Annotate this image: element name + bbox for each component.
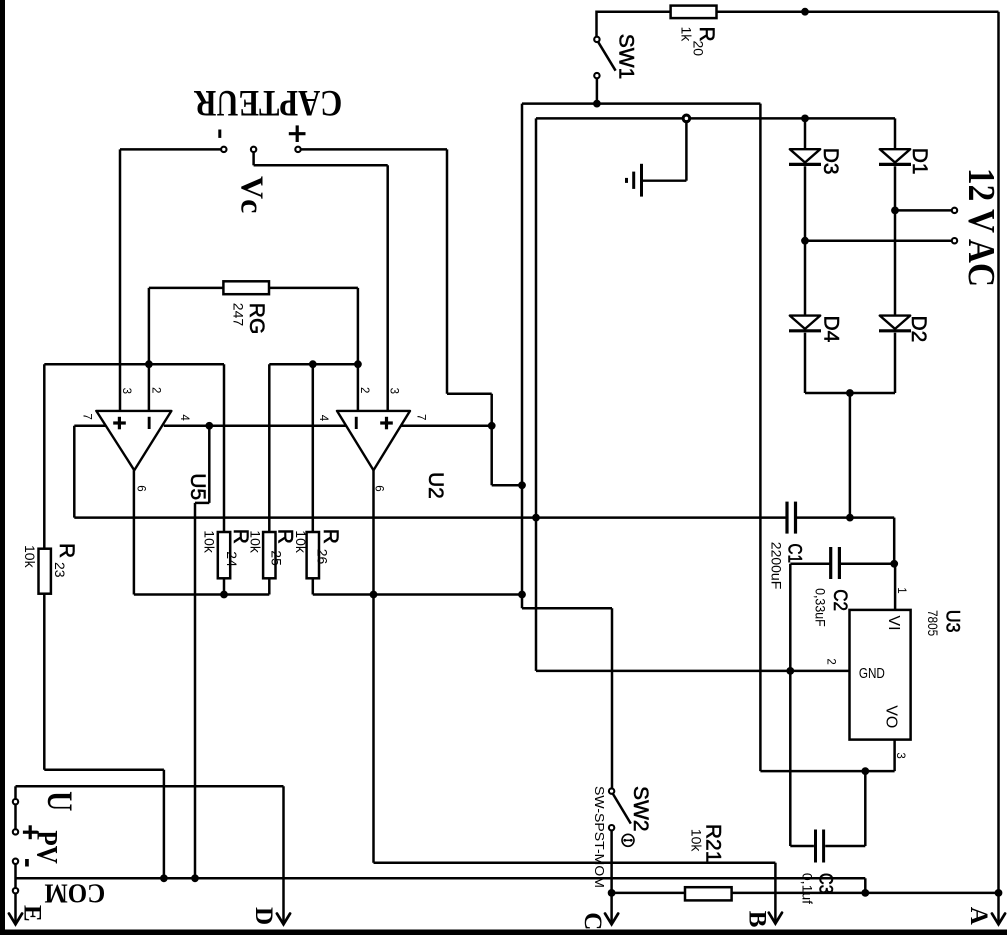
wire x522 vertical xyxy=(521,104,524,609)
wire rail y594.5 right xyxy=(313,593,522,596)
wire D1/D2 branch x895 xyxy=(894,118,897,149)
wire x536 vertical xyxy=(535,118,538,671)
output arrow C xyxy=(579,893,618,930)
wire COM corner to bottom rail xyxy=(864,878,867,893)
svg-text:R: R xyxy=(55,543,78,558)
resistor R26 xyxy=(293,364,342,594)
switch SW1 xyxy=(594,11,637,104)
svg-text:SW2: SW2 xyxy=(629,786,652,832)
wire x790.3 vertical xyxy=(789,564,792,846)
resistor RG xyxy=(223,281,269,334)
svg-text:D3: D3 xyxy=(819,148,842,175)
svg-text:CAPTEUR: CAPTEUR xyxy=(193,82,342,123)
wire capteur plus route xyxy=(446,149,449,393)
svg-text:COM: COM xyxy=(44,878,105,908)
svg-text:B: B xyxy=(744,911,771,928)
PV minus sign xyxy=(25,859,29,867)
PV plus sign xyxy=(23,831,38,834)
svg-text:E: E xyxy=(19,905,46,922)
wire U5 pin7 xyxy=(74,425,106,428)
svg-text:10k: 10k xyxy=(688,829,704,853)
svg-text:0,33uF: 0,33uF xyxy=(813,588,829,627)
wire x894.2 pin1 drop xyxy=(893,518,896,564)
wire pin3 line y771.1 xyxy=(760,770,894,773)
svg-text:C2: C2 xyxy=(829,589,850,611)
ground connector ring on bus2 xyxy=(683,115,690,122)
wire AC terminal 1 xyxy=(895,209,951,212)
capteur terminal plus xyxy=(295,147,300,152)
bottom black border strip xyxy=(0,930,1007,935)
wire pin4 jog to COM xyxy=(208,426,211,503)
regulator U3 xyxy=(850,610,963,740)
svg-text:7: 7 xyxy=(415,414,427,420)
terminal COM xyxy=(13,888,18,893)
svg-text:24: 24 xyxy=(224,551,240,567)
svg-text:10k: 10k xyxy=(22,545,38,569)
svg-text:12 V AC: 12 V AC xyxy=(960,168,1002,287)
output arrow E xyxy=(9,894,46,924)
svg-text:6: 6 xyxy=(134,485,146,491)
capacitor C1 xyxy=(768,502,804,590)
wire bridge bottom y393 xyxy=(805,392,895,395)
terminal PV minus xyxy=(13,859,18,864)
output arrow A xyxy=(965,893,1005,925)
wire C2 line y563.8 xyxy=(790,563,830,566)
svg-text:1: 1 xyxy=(895,587,907,593)
svg-text:3: 3 xyxy=(894,752,906,758)
wire right border (A rail) xyxy=(997,12,1000,893)
capteur plus sign xyxy=(289,132,306,135)
svg-text:10k: 10k xyxy=(202,530,218,554)
svg-text:4: 4 xyxy=(178,414,190,421)
wire U2 pin7 xyxy=(400,425,492,428)
svg-text:25: 25 xyxy=(269,550,285,566)
wire U to PV+ xyxy=(14,805,17,829)
wire C3 line y846 xyxy=(790,845,814,848)
svg-text:PV: PV xyxy=(31,830,64,864)
svg-text:D4: D4 xyxy=(820,316,843,343)
diode D2 xyxy=(879,316,911,331)
wire COM rail y878.3 xyxy=(16,877,866,880)
wire x760 vertical xyxy=(759,104,762,772)
wire x865.3 to C3 xyxy=(864,771,867,846)
resistor R21 xyxy=(685,824,732,901)
ground symbol xyxy=(627,118,687,196)
terminal PV plus xyxy=(13,829,18,834)
svg-text:7805: 7805 xyxy=(925,610,941,636)
junction SW1/bus1 xyxy=(593,100,601,108)
diode D1 xyxy=(879,149,911,164)
svg-text:U5: U5 xyxy=(186,473,209,500)
svg-text:D2: D2 xyxy=(907,316,930,343)
junction bus2 x805 xyxy=(801,115,809,123)
wire bus1 y103.6 xyxy=(522,102,760,105)
wire capteur minus down x120 xyxy=(119,149,122,411)
svg-text:U3: U3 xyxy=(942,610,963,633)
svg-text:A: A xyxy=(965,907,992,925)
capteur terminal minus xyxy=(120,148,221,151)
wire rail y364 right xyxy=(269,363,358,366)
svg-text:C: C xyxy=(579,912,606,930)
SW2 actuator symbol xyxy=(622,834,634,846)
capacitor C2 xyxy=(813,547,850,627)
svg-text:20: 20 xyxy=(691,41,707,57)
resistor R23 xyxy=(22,364,78,770)
wire U3 pin2 line y670.9 xyxy=(536,670,850,673)
svg-text:10k: 10k xyxy=(293,530,309,554)
output arrow D xyxy=(250,786,290,925)
resistor R24 xyxy=(202,364,253,594)
wire U5 output x133.9 xyxy=(133,470,136,594)
svg-text:2: 2 xyxy=(358,387,370,393)
resistor R25 xyxy=(248,364,297,594)
op-amp U2 xyxy=(317,387,447,499)
terminal U xyxy=(13,799,18,804)
wire D3/D4 branch x805 xyxy=(804,118,807,149)
wire Vc down x387.7 xyxy=(386,165,389,411)
capacitor C3 xyxy=(799,830,835,905)
svg-text:D1: D1 xyxy=(908,148,931,175)
node junction top rail x805 xyxy=(801,8,809,16)
svg-text:C3: C3 xyxy=(815,873,836,894)
svg-text:R: R xyxy=(695,27,718,42)
resistor R20 xyxy=(671,6,718,57)
wire shared pin4 line xyxy=(164,425,346,428)
wire rail y364 left xyxy=(44,363,224,366)
svg-text:3: 3 xyxy=(387,388,399,394)
svg-text:GND: GND xyxy=(859,665,885,682)
svg-text:SW1: SW1 xyxy=(614,34,637,80)
svg-text:U2: U2 xyxy=(424,472,447,499)
wire U2 output x373.5 xyxy=(372,470,375,862)
svg-text:2: 2 xyxy=(150,387,162,393)
svg-text:C1: C1 xyxy=(784,544,805,564)
svg-text:3: 3 xyxy=(120,388,132,394)
svg-text:SW-SPST-MOM: SW-SPST-MOM xyxy=(592,786,607,888)
svg-text:D: D xyxy=(250,907,277,925)
wire R23 bottom route xyxy=(44,768,164,771)
wire rail y594.5 left xyxy=(134,593,269,596)
wire x849.9 vertical xyxy=(849,393,852,518)
wire U3 pin3 xyxy=(893,740,896,772)
svg-text:7: 7 xyxy=(80,413,92,419)
svg-text:2200uF: 2200uF xyxy=(768,542,784,589)
svg-text:U: U xyxy=(40,791,80,811)
wire PV- to COM rail xyxy=(14,865,17,888)
diode D3 xyxy=(789,149,821,164)
wire top rail to R20 xyxy=(597,10,671,13)
wire bus2 y118.4 xyxy=(536,117,895,120)
svg-text:R: R xyxy=(319,529,342,544)
svg-text:4: 4 xyxy=(317,415,329,422)
capteur minus sign xyxy=(218,130,221,138)
svg-text:23: 23 xyxy=(52,562,68,578)
wire bottom rail y892.9 xyxy=(612,892,685,895)
left black border strip xyxy=(0,0,5,935)
wire RG right lead xyxy=(269,287,358,290)
svg-text:VI: VI xyxy=(885,615,902,630)
op-amp U5 xyxy=(80,387,209,500)
diode D4 xyxy=(789,316,821,331)
wire x522 jog to SW2 xyxy=(522,607,612,610)
wire U terminal to D xyxy=(14,786,17,798)
svg-text:Vc: Vc xyxy=(234,176,270,213)
svg-text:VO: VO xyxy=(882,705,899,728)
svg-text:247: 247 xyxy=(230,303,246,327)
wire V+ rail y517.6 xyxy=(74,516,787,519)
svg-text:2: 2 xyxy=(824,658,836,664)
svg-text:10k: 10k xyxy=(248,530,264,554)
svg-text:R: R xyxy=(273,529,296,544)
svg-text:26: 26 xyxy=(314,549,330,565)
switch SW2 xyxy=(592,786,652,893)
svg-text:1k: 1k xyxy=(679,27,695,43)
capteur terminal mid (Vc) xyxy=(251,147,256,152)
wire AC terminal 2 xyxy=(805,239,952,242)
wire RG left lead xyxy=(149,287,224,290)
output arrow B xyxy=(744,863,783,928)
wire rail U2out y862.7 xyxy=(374,861,776,864)
svg-text:RG: RG xyxy=(245,303,268,335)
